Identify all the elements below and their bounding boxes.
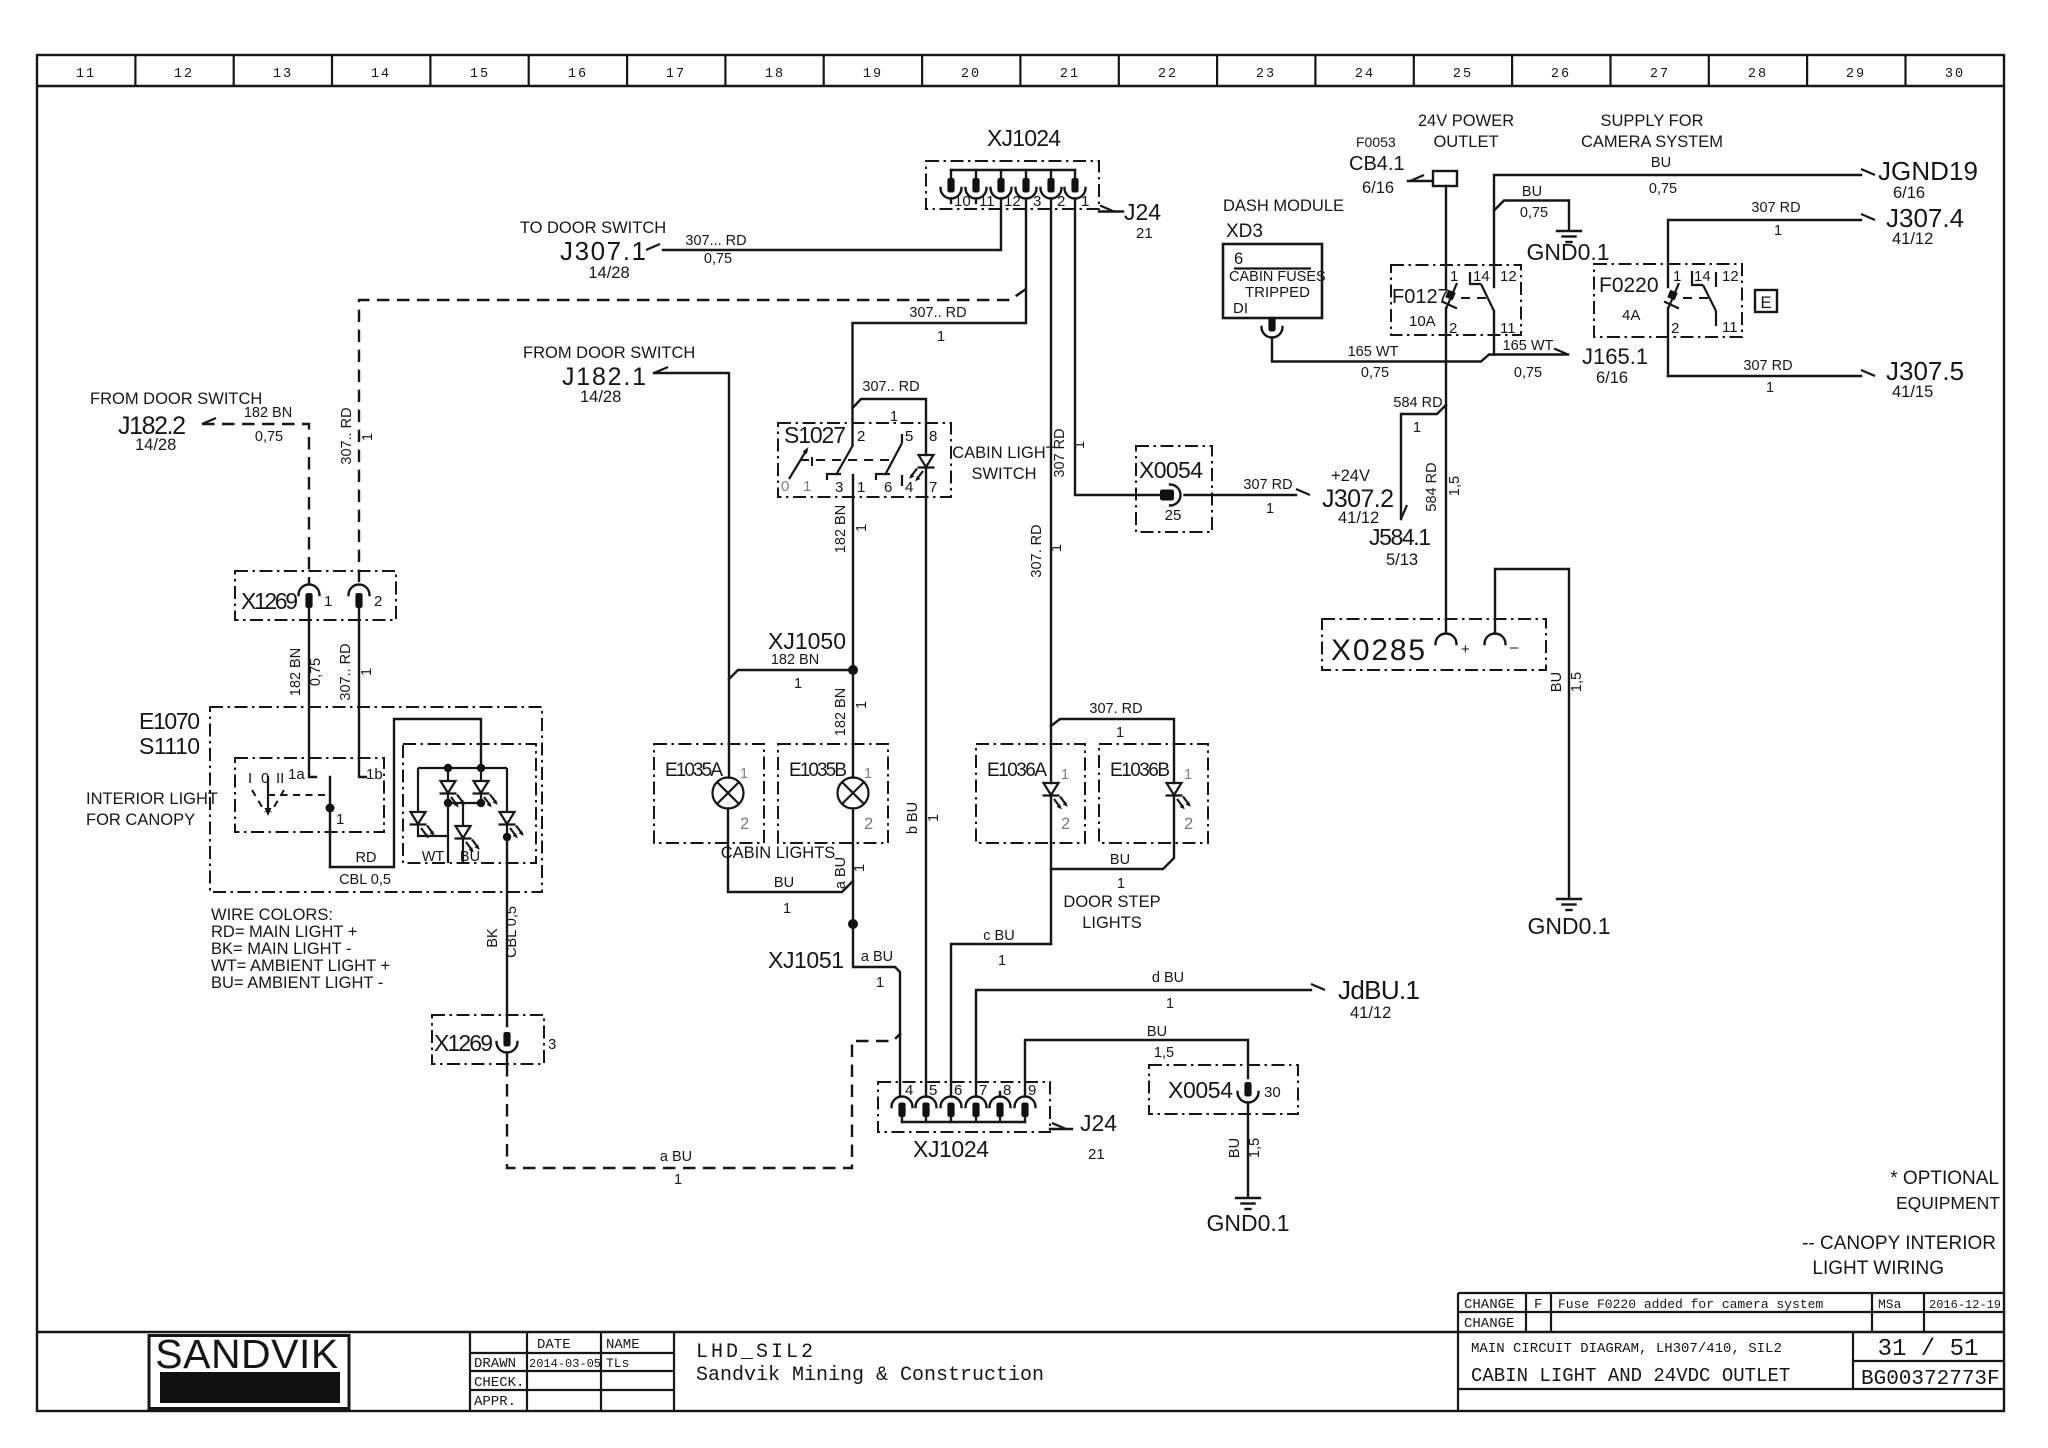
switch S1027 cabin light switch <box>778 422 951 497</box>
svg-text:2: 2 <box>374 593 382 610</box>
svg-text:CAMERA SYSTEM: CAMERA SYSTEM <box>1581 133 1723 151</box>
svg-text:1: 1 <box>864 766 872 782</box>
pin 10 <box>941 170 971 210</box>
svg-text:1: 1 <box>1061 767 1069 783</box>
svg-text:LIGHTS: LIGHTS <box>1082 914 1142 932</box>
connector X0054 pin 25 <box>1136 446 1212 532</box>
svg-text:29: 29 <box>1846 67 1866 82</box>
svg-text:XJ1051: XJ1051 <box>768 947 844 973</box>
svg-text:BU= AMBIENT LIGHT -: BU= AMBIENT LIGHT - <box>211 974 383 992</box>
svg-text:10A: 10A <box>1409 313 1436 330</box>
svg-text:6: 6 <box>884 479 892 496</box>
pin 6 <box>941 1082 963 1122</box>
led main B <box>480 768 482 781</box>
svg-text:1: 1 <box>937 329 945 345</box>
svg-text:J24: J24 <box>1080 1110 1117 1136</box>
led ambient C <box>417 768 419 812</box>
svg-text:6/16: 6/16 <box>1893 184 1925 202</box>
linkage dashed <box>1461 297 1486 299</box>
svg-text:LHD_SIL2: LHD_SIL2 <box>696 1341 816 1364</box>
pin of XD3 <box>1262 317 1283 338</box>
svg-text:1b: 1b <box>366 766 383 783</box>
aux contact 14 hook and blade <box>1470 272 1481 284</box>
svg-text:9: 9 <box>1028 1082 1036 1099</box>
svg-text:17: 17 <box>666 67 686 82</box>
pin 7 <box>966 1082 988 1122</box>
svg-text:JGND19: JGND19 <box>1878 156 1978 186</box>
svg-text:SUPPLY FOR: SUPPLY FOR <box>1600 112 1703 130</box>
connector X1269 pin 3 <box>432 1015 556 1064</box>
wire 182 BN X1269/1 to interior light 1a <box>288 608 324 777</box>
svg-text:307.. RD: 307.. RD <box>909 305 966 321</box>
svg-text:41/15: 41/15 <box>1892 383 1933 401</box>
svg-text:2014-03-05: 2014-03-05 <box>529 1357 601 1371</box>
svg-text:14/28: 14/28 <box>135 436 176 454</box>
pin 2 <box>349 585 370 609</box>
svg-text:584 RD: 584 RD <box>1424 462 1440 511</box>
svg-text:CB4.1: CB4.1 <box>1349 153 1405 175</box>
svg-text:BK: BK <box>485 928 501 948</box>
svg-text:Fuse F0220 added for camera sy: Fuse F0220 added for camera system <box>1558 1297 1823 1312</box>
svg-text:J307.4: J307.4 <box>1886 203 1964 233</box>
wire a BU XJ1051 to XJ1024 pin4 <box>853 924 900 1097</box>
pin 9 <box>1015 1082 1037 1122</box>
svg-text:1: 1 <box>794 676 802 692</box>
contact 5-6 blade <box>901 434 903 443</box>
svg-text:CABIN LIGHT: CABIN LIGHT <box>952 444 1056 462</box>
svg-text:MAIN CIRCUIT DIAGRAM, LH307/41: MAIN CIRCUIT DIAGRAM, LH307/410, SIL2 <box>1471 1341 1782 1357</box>
svg-text:BU: BU <box>1147 1024 1167 1040</box>
svg-text:18: 18 <box>765 67 785 82</box>
svg-text:J24: J24 <box>1124 199 1161 225</box>
connector X0285 <box>1322 619 1546 670</box>
svg-text:RD= MAIN LIGHT +: RD= MAIN LIGHT + <box>211 923 357 941</box>
svg-text:a BU: a BU <box>833 857 849 889</box>
svg-text:BU: BU <box>774 875 794 891</box>
svg-text:TO DOOR SWITCH: TO DOOR SWITCH <box>520 219 666 237</box>
led E1036A door step light <box>976 744 1085 843</box>
svg-text:CBL 0,5: CBL 0,5 <box>339 872 391 888</box>
svg-text:CABIN FUSES: CABIN FUSES <box>1229 269 1326 285</box>
svg-text:BU: BU <box>1522 184 1542 200</box>
svg-text:1: 1 <box>1081 193 1089 210</box>
svg-text:1,5: 1,5 <box>1154 1045 1174 1061</box>
reference J307.5 <box>1861 356 1964 401</box>
svg-text:XJ1024: XJ1024 <box>913 1136 989 1162</box>
svg-text:1: 1 <box>1413 420 1421 436</box>
svg-text:11: 11 <box>1500 320 1516 337</box>
main pole blade with thermal element <box>1446 283 1457 309</box>
svg-text:1: 1 <box>854 524 870 532</box>
pin - <box>1485 634 1506 645</box>
svg-text:14: 14 <box>1694 268 1711 285</box>
svg-text:6: 6 <box>954 1082 962 1099</box>
svg-text:307. RD: 307. RD <box>1029 524 1045 577</box>
wire 307.. RD X1269/2 to interior light 1b <box>338 608 375 777</box>
svg-text:DRAWN: DRAWN <box>474 1356 516 1372</box>
svg-text:CHANGE: CHANGE <box>1464 1316 1514 1332</box>
svg-text:E: E <box>1760 294 1771 312</box>
svg-text:X0285: X0285 <box>1331 634 1425 667</box>
reference JGND19 <box>1861 156 1978 202</box>
svg-text:182 BN: 182 BN <box>288 648 304 696</box>
svg-text:182 BN: 182 BN <box>771 652 819 668</box>
svg-text:d BU: d BU <box>1152 970 1184 986</box>
svg-text:1: 1 <box>359 668 375 676</box>
svg-text:–: – <box>1510 639 1519 656</box>
svg-text:WIRE COLORS:: WIRE COLORS: <box>211 906 333 924</box>
rotary position arrow <box>789 451 806 479</box>
pin 8 <box>990 1082 1012 1122</box>
svg-text:4A: 4A <box>1622 307 1640 324</box>
svg-text:1,5: 1,5 <box>1247 1138 1263 1158</box>
svg-text:19: 19 <box>863 67 883 82</box>
svg-text:1: 1 <box>803 478 811 495</box>
node XJ1050 <box>729 628 858 692</box>
svg-text:0,75: 0,75 <box>1361 365 1389 381</box>
svg-text:22: 22 <box>1158 67 1178 82</box>
svg-text:F0220: F0220 <box>1599 274 1659 297</box>
svg-text:F: F <box>1534 1297 1542 1313</box>
wire 307.. RD branch to S1027 pin8 (indicator) <box>853 379 927 455</box>
svg-text:25: 25 <box>1453 67 1473 82</box>
svg-text:1: 1 <box>1266 501 1274 517</box>
svg-text:F0127: F0127 <box>1392 286 1449 308</box>
svg-text:INTERIOR LIGHT: INTERIOR LIGHT <box>86 790 218 808</box>
wire c BU E1036A return to XJ1024 pin6 <box>951 796 1051 1097</box>
led main A <box>447 768 449 781</box>
svg-text:11: 11 <box>76 67 96 82</box>
svg-text:CABIN LIGHT AND 24VDC OUTLET: CABIN LIGHT AND 24VDC OUTLET <box>1471 1365 1790 1387</box>
LED array of canopy light <box>403 744 536 865</box>
svg-text:3: 3 <box>548 1036 556 1053</box>
svg-text:8: 8 <box>929 428 937 445</box>
svg-text:JdBU.1: JdBU.1 <box>1338 975 1420 1005</box>
svg-text:FOR CANOPY: FOR CANOPY <box>86 811 195 829</box>
svg-text:14: 14 <box>371 67 391 82</box>
breaker F0220 4A <box>1594 264 1742 376</box>
svg-text:RD: RD <box>356 850 377 866</box>
reference J182.1 FROM DOOR SWITCH <box>523 344 695 406</box>
wire 307... RD pin12 to J307.1 <box>663 199 1001 268</box>
svg-text:4: 4 <box>905 1082 913 1099</box>
svg-text:TLs: TLs <box>606 1356 629 1371</box>
wire BU 0,75 branch to GND0.1 <box>1494 184 1569 229</box>
connector XJ1024 (top) <box>926 125 1099 210</box>
svg-text:307 RD: 307 RD <box>1243 477 1292 493</box>
led ambient E <box>462 803 464 826</box>
wire BU 1,5 XJ1024 pin9 to X0054/30 <box>1025 1024 1248 1097</box>
pin 12 <box>991 170 1021 210</box>
svg-text:1: 1 <box>857 479 865 496</box>
svg-text:1: 1 <box>1117 876 1125 892</box>
reference J24 (bottom) <box>1050 1110 1117 1163</box>
svg-text:NAME: NAME <box>606 1337 640 1353</box>
svg-text:I: I <box>248 770 252 787</box>
svg-text:1: 1 <box>360 433 376 441</box>
svg-text:1: 1 <box>1072 441 1088 449</box>
svg-text:F0053: F0053 <box>1356 134 1396 150</box>
wire BU E1036B return join <box>1051 796 1174 893</box>
svg-text:X0054: X0054 <box>1168 1077 1233 1103</box>
svg-text:1: 1 <box>876 975 884 991</box>
linkage dashed <box>1683 297 1708 299</box>
svg-text:b BU: b BU <box>905 802 921 834</box>
pin 2 <box>1041 170 1066 210</box>
svg-text:E1035B: E1035B <box>789 760 847 781</box>
svg-text:307 RD: 307 RD <box>1751 200 1800 216</box>
svg-text:0,75: 0,75 <box>308 658 324 686</box>
svg-text:OUTLET: OUTLET <box>1433 133 1498 151</box>
wire dashed 182 BN J182.2 to X1269 pin1 <box>202 405 309 585</box>
svg-text:2: 2 <box>1671 320 1679 337</box>
svg-text:J165.1: J165.1 <box>1582 344 1648 369</box>
wire colors note <box>211 906 390 992</box>
svg-text:DOOR STEP: DOOR STEP <box>1063 893 1160 911</box>
svg-text:307. RD: 307. RD <box>1089 701 1142 717</box>
svg-text:182 BN: 182 BN <box>833 505 849 553</box>
svg-text:5: 5 <box>929 1082 937 1099</box>
svg-text:3: 3 <box>835 479 843 496</box>
svg-text:1: 1 <box>1184 767 1192 783</box>
svg-text:7: 7 <box>929 479 937 496</box>
svg-text:1: 1 <box>852 864 868 872</box>
svg-text:1: 1 <box>1766 380 1774 396</box>
svg-text:DASH MODULE: DASH MODULE <box>1223 197 1344 215</box>
svg-text:8: 8 <box>1003 1082 1011 1099</box>
svg-text:2: 2 <box>864 815 873 833</box>
svg-text:307.. RD: 307.. RD <box>339 407 355 464</box>
svg-text:1: 1 <box>324 593 332 610</box>
svg-text:1,5: 1,5 <box>1569 672 1585 692</box>
wire dashed 307.. RD to X1269 pin2 <box>339 289 1026 585</box>
svg-text:307 RD: 307 RD <box>1743 358 1792 374</box>
switch common pole <box>329 777 331 867</box>
svg-text:FROM DOOR SWITCH: FROM DOOR SWITCH <box>90 390 262 408</box>
wire 584 RD main vertical to X0285 + <box>1424 362 1463 634</box>
wire d BU XJ1024 pin7 to JdBU.1 <box>976 970 1311 1097</box>
svg-text:XJ1024: XJ1024 <box>987 125 1061 151</box>
svg-text:E1070: E1070 <box>139 708 200 734</box>
ground GND0.1 (bottom) <box>1206 1198 1289 1236</box>
svg-text:1: 1 <box>926 814 942 822</box>
svg-text:24: 24 <box>1355 67 1375 82</box>
svg-text:21: 21 <box>1136 225 1153 242</box>
svg-text:TRIPPED: TRIPPED <box>1245 284 1310 301</box>
svg-text:1: 1 <box>854 701 870 709</box>
svg-text:1: 1 <box>1774 223 1782 239</box>
svg-text:WT: WT <box>422 849 445 865</box>
wire 307.. RD pin3 to S1027 pin2 <box>853 199 1027 446</box>
connector X1269 pins 1,2 <box>235 571 396 620</box>
svg-text:+24V: +24V <box>1331 467 1370 485</box>
circuit breaker CB4.1 / F0053 <box>1349 134 1457 288</box>
svg-text:7: 7 <box>979 1082 987 1099</box>
marker E (optional equipment) <box>1755 290 1777 312</box>
wire 182 BN J182.1 to E1035A via XJ1050 <box>654 373 729 778</box>
svg-text:1: 1 <box>1673 268 1681 285</box>
svg-text:* OPTIONAL: * OPTIONAL <box>1890 1168 1999 1189</box>
svg-text:26: 26 <box>1551 67 1571 82</box>
svg-text:2: 2 <box>857 428 865 445</box>
indicator LED pins 8-7 <box>909 455 934 481</box>
svg-text:165 WT: 165 WT <box>1348 344 1399 360</box>
svg-text:24V POWER: 24V POWER <box>1418 112 1514 130</box>
wire BU 0,75 to JGND19 <box>1494 155 1861 287</box>
wire BU 1,5 X0054/30 to GND0.1 <box>1227 1103 1263 1197</box>
wire 307 RD F0220 pin2 to J307.5 <box>1668 358 1861 396</box>
pin 12 stub <box>1715 272 1717 287</box>
svg-text:J307.5: J307.5 <box>1886 356 1964 386</box>
svg-text:CBL 0,5: CBL 0,5 <box>504 906 520 958</box>
svg-text:S1027: S1027 <box>784 422 846 448</box>
svg-text:16: 16 <box>568 67 588 82</box>
pin 5 <box>916 1082 938 1122</box>
wire BU E1035A return to E1035B return <box>728 809 853 918</box>
connector XJ1024 (bottom) <box>878 1082 1050 1162</box>
svg-text:J307.1: J307.1 <box>560 236 646 266</box>
svg-text:a BU: a BU <box>861 949 893 965</box>
reference J584.1 <box>1369 505 1431 569</box>
pin 4 <box>892 1082 914 1122</box>
svg-text:1: 1 <box>1116 725 1124 741</box>
svg-text:BG00372773F: BG00372773F <box>1861 1368 2000 1391</box>
reference J24 (top) <box>1099 199 1161 242</box>
svg-text:1: 1 <box>783 901 791 917</box>
svg-text:5: 5 <box>905 428 913 445</box>
svg-text:584 RD: 584 RD <box>1393 395 1442 411</box>
svg-text:DI: DI <box>1233 300 1248 317</box>
svg-text:1: 1 <box>674 1172 682 1188</box>
reference J182.2 FROM DOOR SWITCH <box>90 390 262 454</box>
svg-text:5/13: 5/13 <box>1386 551 1418 569</box>
wire a BU E1035B return to XJ1051 <box>833 809 868 925</box>
svg-text:SANDVIK: SANDVIK <box>155 1331 339 1377</box>
svg-text:1: 1 <box>1450 268 1458 285</box>
svg-text:DATE: DATE <box>537 1337 571 1353</box>
svg-text:25: 25 <box>1165 507 1182 524</box>
led ambient D <box>506 768 508 812</box>
svg-text:E1035A: E1035A <box>665 760 723 781</box>
svg-text:1: 1 <box>740 766 748 782</box>
svg-text:13: 13 <box>273 67 293 82</box>
svg-text:S1110: S1110 <box>139 733 200 759</box>
svg-text:1,5: 1,5 <box>1447 476 1463 496</box>
svg-text:SWITCH: SWITCH <box>971 465 1036 483</box>
svg-text:12: 12 <box>1500 268 1517 285</box>
svg-text:165 WT: 165 WT <box>1503 338 1554 354</box>
ground GND0.1 (top) <box>1526 231 1609 265</box>
svg-text:11: 11 <box>1722 319 1738 336</box>
wire BK CBL 0,5 to X1269/3 <box>485 837 520 1026</box>
svg-text:FROM DOOR SWITCH: FROM DOOR SWITCH <box>523 344 695 362</box>
breaker F0127 10A <box>1391 265 1521 362</box>
svg-text:Sandvik Mining & Construction: Sandvik Mining & Construction <box>696 1364 1044 1387</box>
svg-text:2: 2 <box>740 815 749 833</box>
svg-text:28: 28 <box>1748 67 1768 82</box>
node XJ1051 <box>768 919 858 973</box>
svg-text:41/12: 41/12 <box>1892 230 1933 248</box>
wire 182 BN S1027 pin1 to XJ1050 <box>833 497 870 670</box>
svg-text:12: 12 <box>174 67 194 82</box>
svg-text:23: 23 <box>1256 67 1276 82</box>
wire 584 RD branch to J584.1 <box>1393 395 1446 519</box>
ground GND0.1 (right) <box>1527 899 1610 939</box>
reference JdBU.1 <box>1311 975 1420 1022</box>
pin 3 <box>1016 170 1042 210</box>
svg-text:BU: BU <box>1110 852 1130 868</box>
svg-text:15: 15 <box>470 67 490 82</box>
svg-text:BU: BU <box>1651 155 1671 171</box>
pin 1 <box>1065 170 1090 210</box>
svg-text:X1269: X1269 <box>241 588 298 614</box>
pin 11 <box>966 170 995 210</box>
svg-text:LIGHT WIRING: LIGHT WIRING <box>1812 1258 1944 1279</box>
wire 307. RD pin2 down to door step lights <box>1029 199 1065 784</box>
reference J307.4 <box>1861 203 1964 248</box>
svg-text:14/28: 14/28 <box>588 264 629 282</box>
svg-text:GND0.1: GND0.1 <box>1526 239 1609 265</box>
interior light for canopy E1070 / S1110 <box>86 707 542 892</box>
svg-text:BU: BU <box>1227 1138 1243 1158</box>
svg-text:12: 12 <box>1722 268 1739 285</box>
svg-text:307.. RD: 307.. RD <box>862 379 919 395</box>
svg-text:a BU: a BU <box>660 1149 692 1165</box>
svg-text:14/28: 14/28 <box>580 388 621 406</box>
selector symbol <box>267 776 269 812</box>
svg-text:0,75: 0,75 <box>704 251 732 267</box>
svg-text:307 RD: 307 RD <box>1052 428 1068 477</box>
svg-text:APPR.: APPR. <box>474 1394 516 1410</box>
svg-text:1: 1 <box>336 811 344 828</box>
wire RD CBL 0,5 switch to LED array <box>330 719 481 888</box>
svg-text:MSa: MSa <box>1878 1297 1902 1312</box>
svg-text:14: 14 <box>1473 268 1490 285</box>
svg-text:2: 2 <box>1057 193 1065 210</box>
svg-text:41/12: 41/12 <box>1350 1004 1391 1022</box>
svg-text:+: + <box>1461 641 1470 658</box>
svg-text:CHANGE: CHANGE <box>1464 1297 1514 1313</box>
svg-text:307.. RD: 307.. RD <box>338 643 354 700</box>
svg-text:307... RD: 307... RD <box>685 233 746 249</box>
svg-text:XD3: XD3 <box>1226 221 1263 242</box>
svg-text:0,75: 0,75 <box>1520 205 1548 221</box>
svg-text:27: 27 <box>1650 67 1670 82</box>
svg-text:WT= AMBIENT LIGHT +: WT= AMBIENT LIGHT + <box>211 957 390 975</box>
switch section box <box>235 758 384 832</box>
svg-text:6/16: 6/16 <box>1596 369 1628 387</box>
svg-text:J584.1: J584.1 <box>1369 524 1431 550</box>
svg-text:CABIN LIGHTS: CABIN LIGHTS <box>721 844 836 862</box>
aux contact 14 hook and blade <box>1692 271 1703 285</box>
svg-text:0: 0 <box>781 478 789 495</box>
svg-text:BU: BU <box>460 849 480 865</box>
svg-text:2: 2 <box>1184 815 1193 833</box>
svg-text:X0054: X0054 <box>1139 457 1203 483</box>
svg-text:30: 30 <box>1264 1084 1281 1101</box>
svg-text:E1036A: E1036A <box>987 760 1047 781</box>
svg-text:2016-12-19: 2016-12-19 <box>1929 1298 2001 1312</box>
reference J307.1 TO DOOR SWITCH <box>520 219 666 282</box>
svg-text:II: II <box>276 770 284 787</box>
contact 2-3 blade <box>836 445 853 475</box>
svg-text:182 BN: 182 BN <box>833 688 849 736</box>
wire dashed a BU X1269/3 to XJ1051 net <box>507 1033 901 1188</box>
svg-text:1: 1 <box>1049 544 1065 552</box>
svg-text:182 BN: 182 BN <box>244 405 292 421</box>
svg-text:EQUIPMENT: EQUIPMENT <box>1896 1193 2000 1213</box>
svg-text:0,75: 0,75 <box>255 429 283 445</box>
